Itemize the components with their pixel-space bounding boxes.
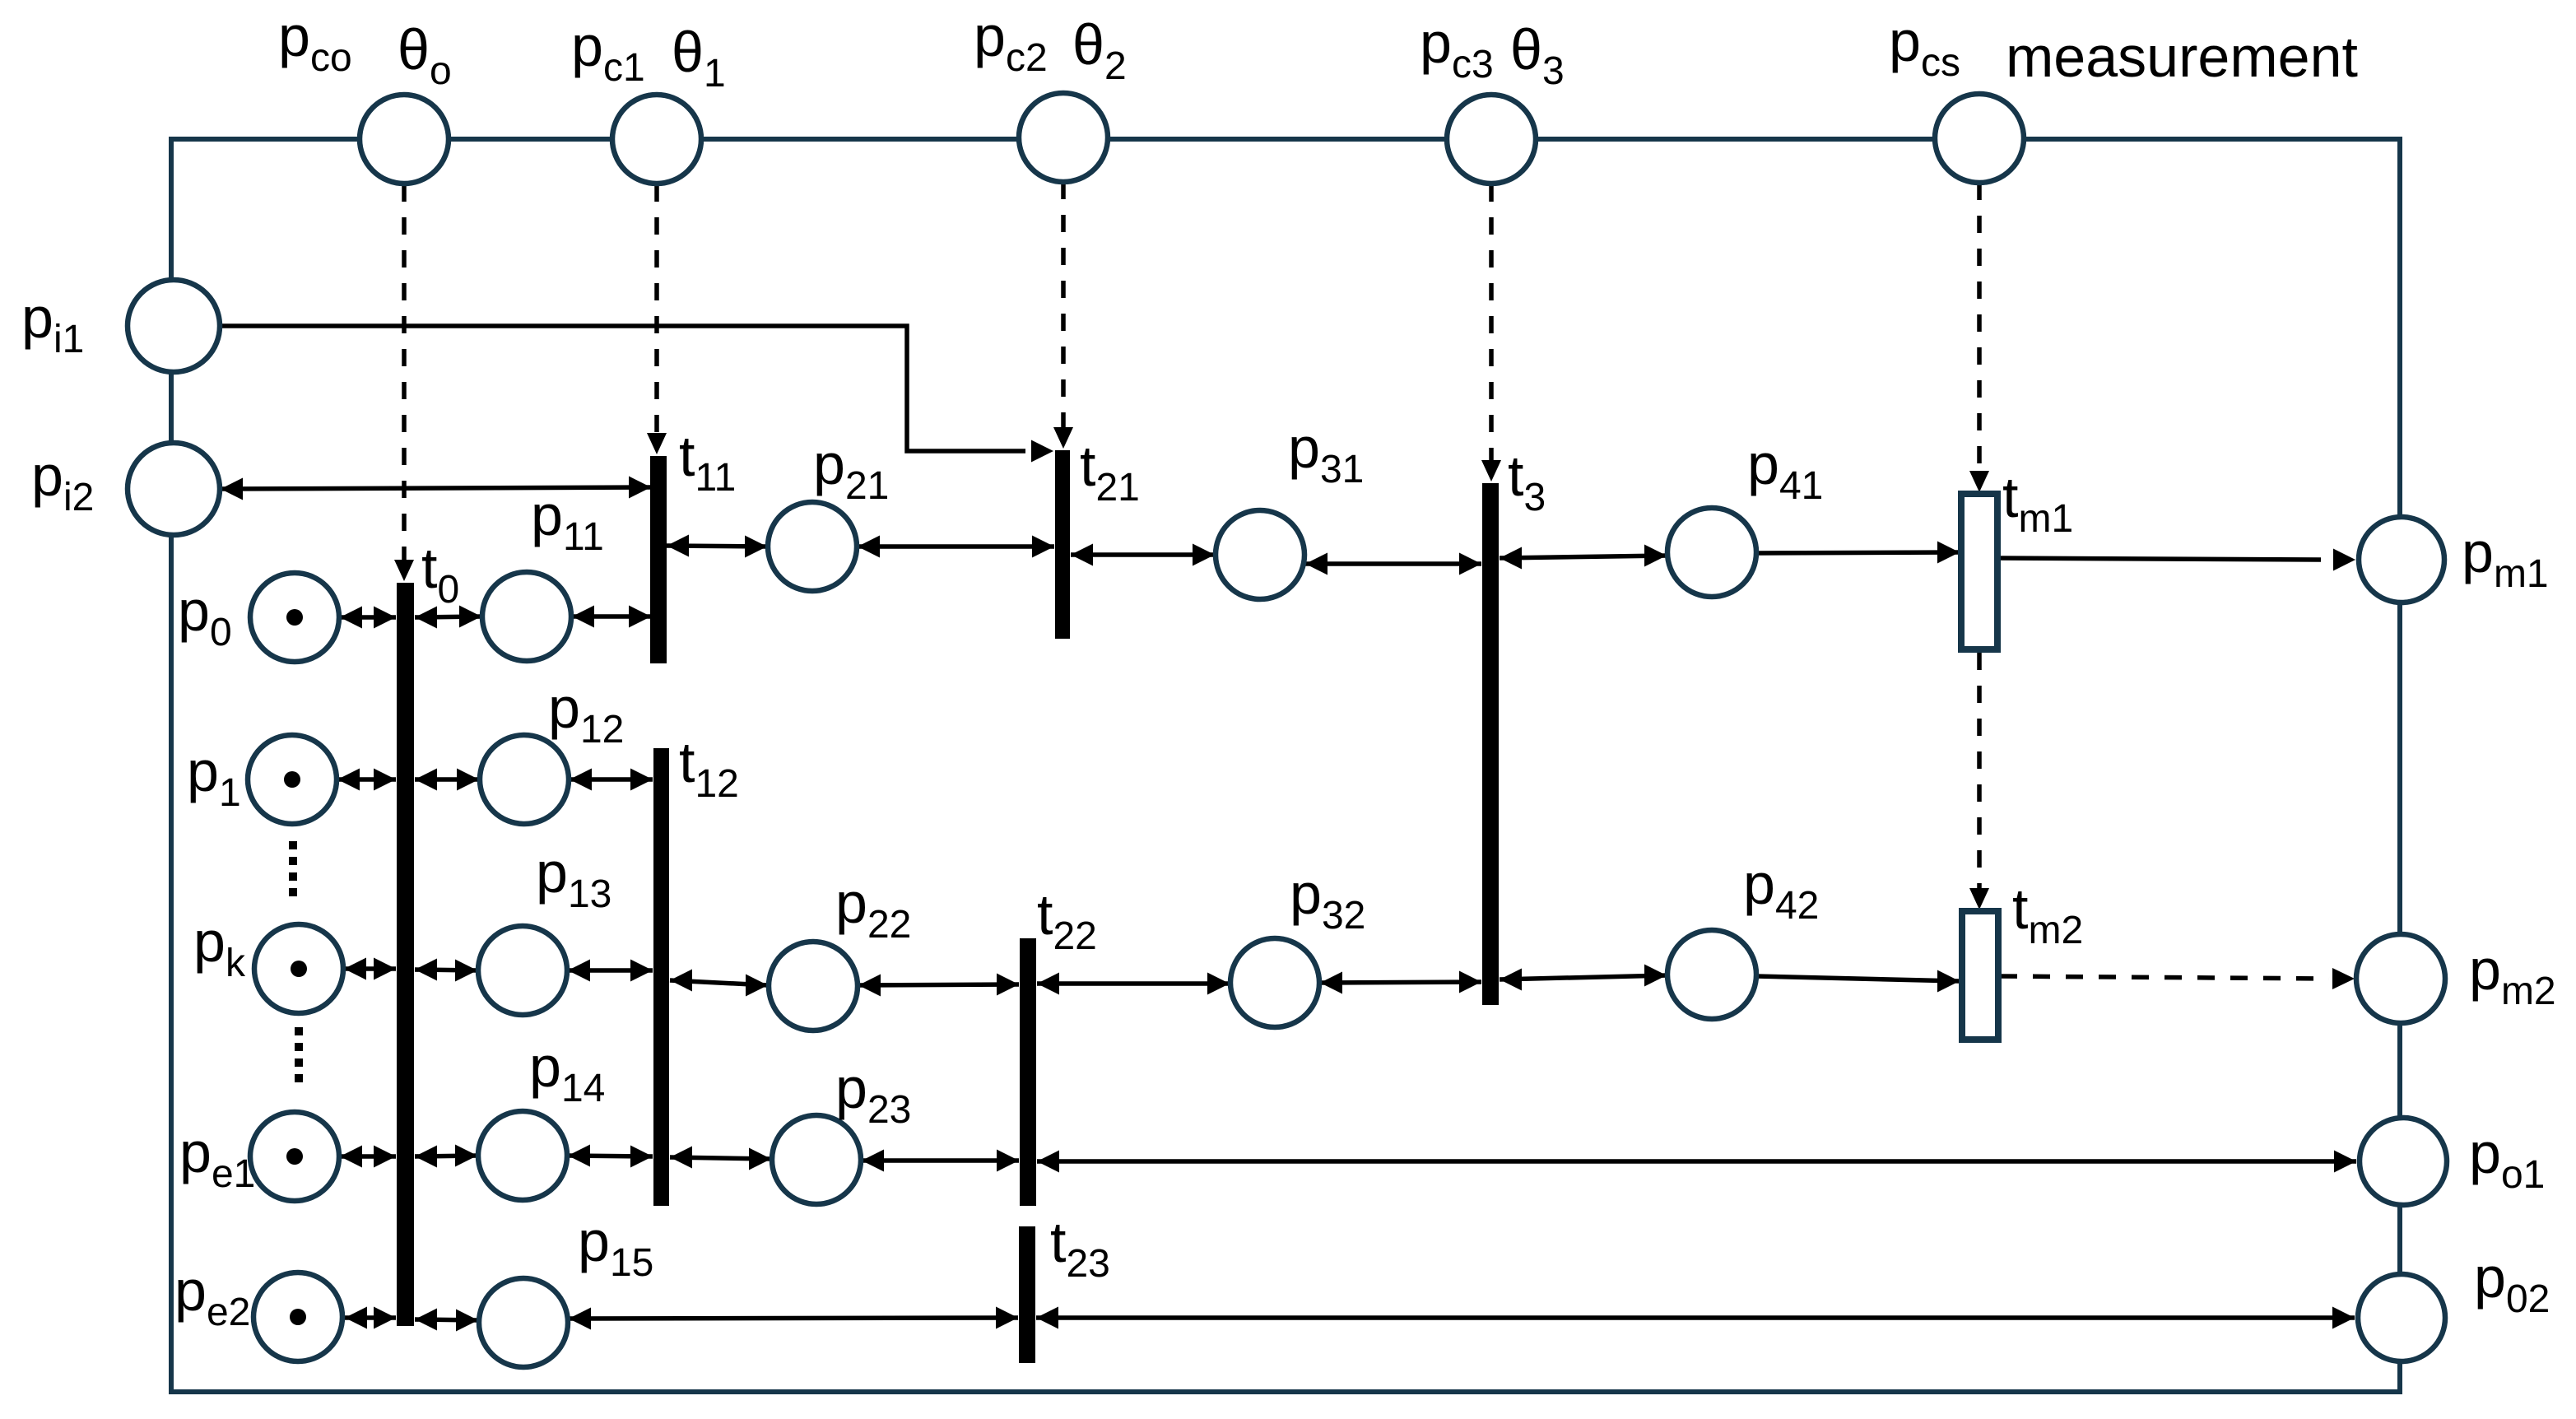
wire p_21 to t_21	[858, 536, 1054, 558]
wire p_12 to t_12	[570, 769, 653, 791]
wire p_13 to t_12	[568, 960, 653, 982]
place p_42	[1667, 930, 1756, 1019]
wire t_11 to p_21	[667, 535, 767, 558]
svg-text:p11: p11	[531, 483, 604, 559]
svg-text:pcs: pcs	[1889, 9, 1960, 85]
svg-text:p0: p0	[178, 579, 232, 654]
svg-text:pe1: pe1	[179, 1120, 255, 1196]
wire dashed arc t_m1 to t_m2	[1969, 653, 1989, 910]
place p_c1	[612, 95, 701, 184]
place p_1	[248, 735, 337, 824]
place p_12	[480, 735, 569, 824]
node ellipsis between p_k and p_e1	[295, 1027, 303, 1088]
svg-text:pm2: pm2	[2469, 937, 2556, 1013]
svg-text:θ2: θ2	[1072, 12, 1127, 88]
wire dashed arc p_cs to t_m1	[1969, 183, 1989, 492]
wire t_12 to p_22	[670, 970, 768, 997]
svg-text:t21: t21	[1080, 434, 1140, 509]
transition t_m2	[1962, 911, 1998, 1040]
place p_11	[482, 572, 571, 661]
wire t_0 to p_14	[415, 1145, 477, 1168]
svg-text:pe2: pe2	[174, 1258, 250, 1334]
wire p_0 to t_0	[340, 607, 396, 629]
wire p_e1 to t_0	[340, 1146, 396, 1168]
svg-text:p12: p12	[548, 676, 624, 751]
place p_co	[360, 95, 449, 184]
wire t_3 to p_42	[1500, 965, 1667, 991]
place p_k	[254, 924, 343, 1013]
wire theta_o dashed arc p_co to t_0	[394, 184, 414, 581]
wire p_23 to t_22	[862, 1150, 1019, 1172]
svg-text:p31: p31	[1288, 416, 1364, 491]
wire t_0 to p_11	[415, 606, 481, 629]
wire p_i1 to t_21 elbow	[219, 326, 1053, 463]
svg-text:p23: p23	[835, 1056, 911, 1132]
svg-text:t23: t23	[1050, 1210, 1110, 1286]
place p_m1	[2359, 517, 2444, 602]
svg-text:t11: t11	[679, 424, 736, 500]
place p_0	[250, 573, 339, 662]
place p_14	[478, 1111, 567, 1200]
svg-text:p42: p42	[1743, 852, 1819, 928]
svg-text:p02: p02	[2474, 1245, 2550, 1321]
svg-text:po1: po1	[2469, 1121, 2545, 1197]
svg-text:t0: t0	[421, 536, 459, 612]
place p_i2	[128, 443, 220, 535]
place p_21	[768, 502, 857, 591]
wire p_32 to t_3	[1320, 971, 1481, 994]
transition t_3	[1482, 483, 1499, 1005]
wire p_14 to t_12	[568, 1145, 653, 1168]
svg-text:t3: t3	[1508, 444, 1546, 519]
node ellipsis between p_1 and p_k	[289, 841, 297, 899]
wire p_31 to t_3	[1305, 553, 1481, 575]
place p_e2	[253, 1272, 342, 1361]
wire t_0 to p_13	[415, 959, 477, 982]
wire t_12 to p_23	[670, 1147, 771, 1170]
place p_cs	[1935, 94, 2024, 183]
wire p_k to t_0	[344, 958, 396, 980]
wire t_m1 to p_m1	[1998, 549, 2355, 571]
place p_c3	[1447, 95, 1536, 184]
svg-text:tm2: tm2	[2012, 877, 2083, 952]
wire t_0 to p_15	[415, 1309, 478, 1332]
transition t_m1	[1961, 494, 1997, 649]
place p_e1	[250, 1112, 339, 1201]
wire p_1 to t_0	[337, 769, 396, 791]
svg-text:θ3: θ3	[1510, 17, 1565, 93]
border frame	[171, 139, 2400, 1392]
svg-text:pc3: pc3	[1420, 11, 1494, 86]
place p_02	[2358, 1274, 2445, 1361]
svg-text:p41: p41	[1747, 432, 1823, 508]
wire dashed arc t_m2 to p_m2	[2000, 968, 2355, 989]
wire t_22 to p_o1	[1037, 1151, 2356, 1173]
svg-text:tm1: tm1	[2002, 465, 2073, 541]
transition t_11	[650, 456, 667, 663]
wire p_e2 to t_0	[345, 1307, 396, 1329]
svg-text:p21: p21	[813, 432, 889, 508]
wire p_15 to t_23	[569, 1307, 1018, 1330]
wire theta_1 dashed arc p_c1 to t_11	[647, 184, 667, 454]
svg-text:p15: p15	[578, 1209, 653, 1285]
svg-text:p32: p32	[1290, 862, 1365, 937]
svg-text:θ1: θ1	[672, 20, 726, 95]
wire p_22 to t_22	[858, 974, 1019, 997]
place p_23	[772, 1115, 861, 1204]
transition t_0	[397, 583, 414, 1326]
svg-text:p14: p14	[529, 1035, 605, 1110]
wire p_11 to t_11	[572, 606, 651, 628]
transition t_23	[1019, 1226, 1035, 1363]
svg-text:measurement: measurement	[2006, 25, 2358, 89]
place p_c2	[1019, 93, 1108, 182]
place p_15	[479, 1278, 568, 1367]
svg-text:p13: p13	[536, 840, 611, 916]
svg-text:pk: pk	[193, 910, 246, 985]
place p_32	[1230, 938, 1319, 1027]
transition t_12	[653, 748, 669, 1206]
svg-text:pc2: pc2	[974, 4, 1048, 80]
transition t_22	[1020, 938, 1036, 1206]
svg-text:t12: t12	[679, 730, 739, 806]
place p_13	[478, 926, 567, 1015]
place p_m2	[2356, 934, 2445, 1023]
svg-text:θo: θo	[398, 17, 452, 93]
wire p_42 to t_m2	[1756, 970, 1960, 993]
wire t_3 to p_41	[1500, 545, 1667, 570]
wire p_41 to t_m1	[1756, 542, 1960, 564]
transition t_21	[1055, 450, 1070, 639]
wire t_0 to p_12	[415, 769, 479, 791]
svg-text:t22: t22	[1037, 882, 1097, 958]
wire t_23 to p_02	[1036, 1307, 2355, 1329]
wire t_21 to p_31	[1071, 544, 1215, 566]
svg-text:pi2: pi2	[31, 444, 94, 519]
svg-text:pi1: pi1	[21, 286, 84, 361]
place p_o1	[2360, 1118, 2447, 1205]
place p_22	[769, 942, 858, 1031]
wire p_i2 to t_11	[221, 477, 651, 500]
svg-text:p22: p22	[835, 871, 911, 947]
place p_31	[1216, 510, 1304, 599]
wire theta_3 dashed arc p_c3 to t_3	[1481, 184, 1501, 482]
wire t_22 to p_32	[1037, 973, 1230, 995]
svg-text:p1: p1	[187, 739, 241, 815]
place p_41	[1667, 508, 1756, 597]
place p_i1	[128, 280, 220, 372]
svg-text:pc1: pc1	[571, 14, 645, 90]
svg-text:pco: pco	[278, 4, 352, 80]
wire theta_2 dashed arc p_c2 to t_21	[1053, 182, 1073, 449]
svg-text:pm1: pm1	[2462, 520, 2549, 596]
